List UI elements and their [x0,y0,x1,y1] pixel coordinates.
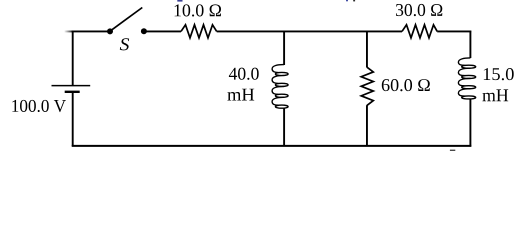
wire left lower (battery to bottom corner) [72,92,74,146]
inductor L1 label 40.0 [229,68,259,80]
resistor R3 value label 60.0 ohm [382,79,430,91]
switch label S [120,38,129,50]
resistor R2 value label 30.0 ohm [396,4,442,16]
wire right lower (L 15mH to bottom-right corner) [469,99,471,147]
wire bottom [72,145,472,147]
inductor L2 15mH coil loop 1 [458,58,475,68]
wire top segment c (R 10ohm to R 30ohm) [217,30,402,32]
cropped text remnant (blue dot top center) [346,0,348,1]
resistor R2 30ohm zigzag [402,25,437,38]
battery value label 100.0 V [12,100,66,112]
inductor L2 15mH coil loop 4 [458,89,475,99]
inductor L2 label 15.0 [484,68,514,80]
wire top segment b (switch right dot to R 10ohm) [147,30,182,32]
inductor L2 label mH [482,89,508,101]
switch S blade [111,8,143,31]
inductor L2 15mH coil loop 2 [458,68,475,78]
wire left upper (corner to battery) [72,31,74,86]
wire branch1 upper (top wire to L 40mH) [283,31,285,65]
cropped text remnant (black dot top center) [353,0,355,1]
wire branch2 upper (top wire to R 60ohm) [366,31,368,67]
resistor R3 60ohm vertical zigzag [361,67,373,105]
wire branch1 lower (L 40mH to bottom wire) [283,108,285,146]
battery V1 long plate [52,85,91,87]
inductor L1 40mH coil loop 3 [272,86,288,97]
cropped text remnant (gray dash bottom right) [450,150,455,151]
inductor L1 40mH coil loop 4 [272,97,288,108]
resistor R1 value label 10.0 ohm [175,4,221,16]
cropped text remnant (blue dash above 10.0 label) [177,0,182,2]
inductor L2 15mH coil loop 3 [458,78,475,88]
inductor L1 40mH coil loop 2 [272,75,288,86]
wire branch2 lower (R 60ohm to bottom wire) [366,105,368,146]
inductor L1 40mH coil loop 1 [272,65,288,76]
resistor R1 10ohm zigzag [181,25,217,38]
switch S left contact dot [107,28,113,34]
wire top segment d (R 30ohm to top-right corner) [437,30,471,32]
switch S right contact dot [141,28,147,34]
inductor L1 label mH [227,89,254,101]
wire top segment a (corner to switch left dot) [72,30,108,32]
wire right upper (top-right corner to L 15mH) [469,31,471,58]
battery V1 short plate [65,91,80,93]
